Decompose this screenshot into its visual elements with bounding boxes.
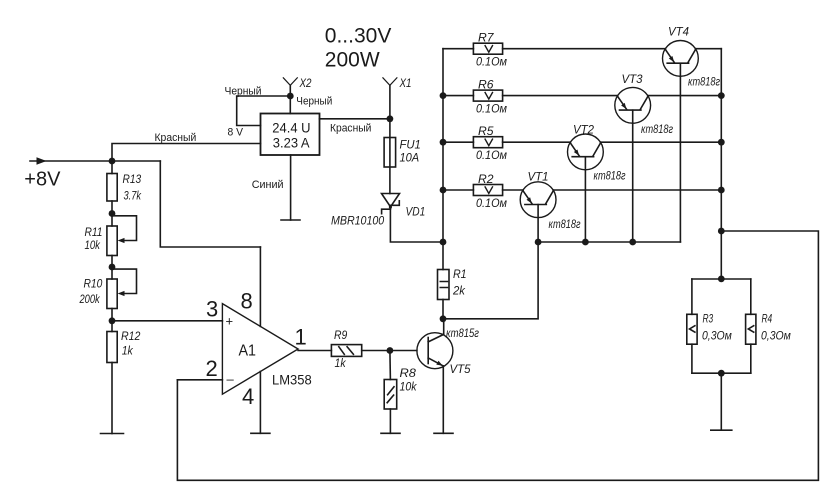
transistor VT1 (520, 182, 556, 218)
svg-text:1k: 1k (335, 356, 347, 370)
wire black loop X2 to box (237, 96, 291, 126)
svg-text:Красный: Красный (330, 123, 371, 135)
svg-text:R10: R10 (84, 277, 103, 291)
svg-text:10A: 10A (400, 151, 420, 165)
svg-text:R13: R13 (123, 172, 142, 186)
node R11/R10 (109, 264, 116, 271)
svg-text:VT1: VT1 (528, 170, 549, 184)
wire X2 to box top (289, 96, 291, 114)
node bus/R5 (440, 139, 447, 146)
resistor R4 (750, 279, 752, 314)
resistor R9 (331, 345, 361, 357)
node VT1 collector (718, 187, 725, 194)
svg-text:кт818г: кт818г (688, 75, 720, 89)
svg-text:VD1: VD1 (406, 205, 426, 219)
transformer box 24.4U 3.23A (261, 114, 320, 156)
wire VT5 emitter to ground (442, 366, 444, 433)
wire VD1 to bus node A (390, 207, 443, 242)
svg-text:3.23 A: 3.23 A (273, 135, 310, 150)
svg-text:0,3Ом: 0,3Ом (761, 329, 791, 343)
ground below op-amp (251, 432, 270, 434)
arrow on +8V wire (37, 157, 47, 165)
op-amp A1 LM358 (222, 304, 298, 395)
wire box bottom to ground (Синий) (290, 155, 292, 220)
wire op-amp pin 4 to ground (259, 372, 261, 434)
svg-text:Синий: Синий (252, 179, 284, 191)
resistor R12 (111, 321, 113, 332)
svg-text:+8V: +8V (24, 168, 61, 190)
transistor VT2 (568, 134, 604, 170)
svg-text:LM358: LM358 (272, 373, 312, 388)
svg-text:X2: X2 (299, 76, 312, 90)
svg-text:–: – (227, 372, 235, 387)
resistor R3 (691, 279, 693, 314)
potentiometer R10 (111, 267, 113, 279)
node A (bus/VD1/R1) (440, 239, 447, 246)
resistor R13 (111, 161, 113, 174)
wire op-amp output to R9 (298, 350, 331, 352)
svg-text:200k: 200k (79, 292, 101, 306)
svg-text:200W: 200W (325, 48, 380, 71)
svg-text:2k: 2k (452, 284, 466, 298)
connector X1 (389, 85, 391, 119)
svg-text:8 V: 8 V (228, 127, 244, 139)
svg-text:FU1: FU1 (400, 138, 421, 152)
resistor R7 (443, 48, 473, 50)
svg-text:1k: 1k (122, 344, 134, 358)
ground below VT5 (434, 432, 453, 434)
svg-text:Красный: Красный (155, 132, 197, 144)
node VT3 collector (718, 92, 725, 99)
wire VT5 collector to node C (443, 319, 445, 335)
svg-text:0.1Ом: 0.1Ом (476, 148, 507, 162)
feedback loop wire (177, 231, 818, 480)
wiper loop R11 (112, 216, 137, 241)
resistor R5 (443, 141, 473, 143)
resistor R6 (443, 95, 473, 97)
left bus vertical (442, 49, 444, 242)
svg-text:X1: X1 (399, 76, 412, 90)
svg-text:кт818г: кт818г (641, 122, 673, 136)
svg-text:R11: R11 (85, 225, 103, 239)
wire +8V down to op-amp pin8 rail (160, 161, 260, 247)
ground below R3R4 (711, 429, 732, 431)
wire node to op-amp pin3 (112, 320, 222, 322)
svg-text:VT4: VT4 (668, 25, 689, 39)
svg-text:2: 2 (206, 356, 218, 381)
bases bus (538, 241, 680, 243)
resistor R1 (442, 242, 444, 270)
ground below box (281, 219, 300, 221)
wire box to X1 node (320, 118, 390, 120)
wire op-amp pin 8 to +8V rail (259, 247, 261, 326)
wire +8V feed (30, 160, 160, 162)
svg-text:24.4 U: 24.4 U (272, 121, 310, 136)
node R9/R8/VT5 base (387, 347, 394, 354)
svg-text:R5: R5 (478, 124, 494, 138)
svg-text:R2: R2 (478, 172, 494, 186)
svg-text:0.1Ом: 0.1Ом (476, 55, 507, 69)
right bus vertical (720, 49, 722, 279)
svg-text:кт818г: кт818г (549, 217, 581, 231)
fuse FU1 (389, 119, 391, 194)
connector X2 (289, 85, 291, 96)
node output (718, 228, 725, 235)
transistor VT3 (615, 87, 651, 123)
node R3R4 bottom (718, 370, 725, 377)
svg-text:R9: R9 (334, 328, 347, 342)
svg-text:R1: R1 (453, 267, 467, 281)
node X1 (387, 115, 394, 122)
svg-text:VT5: VT5 (450, 362, 471, 376)
svg-text:кт818г: кт818г (594, 169, 626, 183)
title 0...30V 200W (325, 24, 392, 71)
ground below R12 (101, 433, 124, 435)
R3/R4 parallel block top rail (692, 278, 751, 280)
node C (440, 315, 447, 322)
node R3R4 top (718, 276, 725, 283)
svg-text:R7: R7 (478, 31, 495, 45)
svg-text:кт815г: кт815г (446, 326, 479, 340)
wiper loop R10 (112, 269, 137, 293)
R3/R4 bottom rail (692, 372, 751, 374)
svg-text:A1: A1 (239, 343, 257, 360)
resistor R2 (443, 189, 473, 191)
wire op-amp pin 2 (177, 379, 222, 381)
svg-text:3: 3 (206, 297, 218, 322)
node bus/R2 (440, 187, 447, 194)
svg-text:MBR10100: MBR10100 (331, 214, 384, 228)
transistor VT5 (417, 333, 453, 369)
potentiometer R11 (111, 214, 113, 227)
wire R9 node to VT5 base (390, 350, 417, 352)
svg-text:R12: R12 (121, 329, 141, 343)
svg-text:+: + (226, 314, 234, 329)
wire red riser to transformer box (112, 144, 261, 162)
transistor VT4 (663, 41, 699, 77)
svg-text:0...30V: 0...30V (325, 24, 392, 47)
svg-text:Черный: Черный (296, 95, 332, 107)
svg-text:0,3Ом: 0,3Ом (702, 329, 732, 343)
svg-text:8: 8 (241, 289, 253, 314)
wire node B down to node C (443, 242, 538, 319)
svg-text:1: 1 (295, 325, 307, 350)
resistor R8 (389, 351, 392, 380)
svg-text:10k: 10k (85, 238, 101, 252)
node VT3 base (629, 239, 636, 246)
node VT2 collector (718, 139, 725, 146)
svg-text:0.1Ом: 0.1Ом (476, 196, 507, 210)
svg-text:R8: R8 (400, 366, 417, 380)
node R10/R12 (109, 317, 116, 324)
svg-text:4: 4 (242, 384, 254, 409)
svg-text:VT3: VT3 (622, 72, 643, 86)
svg-text:VT2: VT2 (573, 123, 594, 137)
node +8V junction (109, 158, 116, 165)
diode VD1 MBR10100 (schottky) (382, 194, 400, 207)
ground below R8 (381, 432, 400, 434)
node R13/R11 (109, 210, 116, 217)
node X2 (287, 93, 294, 100)
wire to ground (720, 373, 722, 430)
svg-text:R3: R3 (703, 312, 714, 326)
node VT2 base (582, 239, 589, 246)
node bus/R6 (440, 92, 447, 99)
svg-text:R6: R6 (478, 78, 494, 92)
svg-text:0.1Ом: 0.1Ом (476, 102, 507, 116)
svg-text:R4: R4 (762, 312, 773, 326)
svg-text:3.7k: 3.7k (124, 189, 142, 203)
node B (VT1 base) (535, 239, 542, 246)
svg-text:10k: 10k (400, 380, 418, 394)
